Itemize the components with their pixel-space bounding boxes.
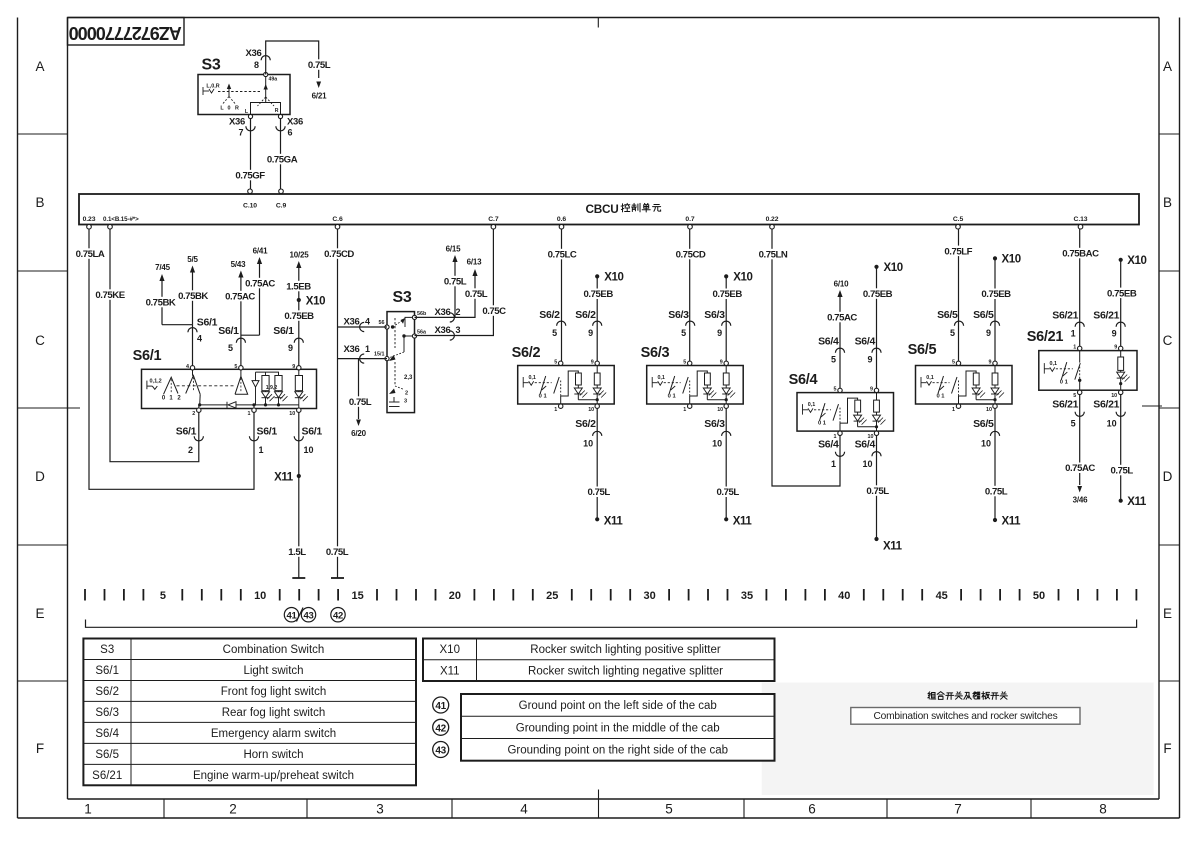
svg-text:S6/5: S6/5 <box>937 309 958 321</box>
svg-text:10: 10 <box>717 407 723 413</box>
CBCU chinese label 控制单元 <box>621 203 630 211</box>
S6/1 pin 5 <box>239 366 243 370</box>
S3 column pin 56b <box>412 315 416 319</box>
svg-text:4: 4 <box>365 317 370 327</box>
wire label 0.75L 6/15 <box>440 276 470 286</box>
wire label 0.75BK right <box>175 290 211 300</box>
ground symbol right <box>331 577 344 579</box>
svg-text:S6/4: S6/4 <box>818 336 839 348</box>
svg-text:5: 5 <box>228 343 233 353</box>
S6/4 pin 9 <box>874 388 878 392</box>
S6/4 pin 10 <box>874 431 878 435</box>
svg-text:4: 4 <box>197 334 202 344</box>
svg-text:0.75AC: 0.75AC <box>1065 463 1095 474</box>
S3 pin R <box>278 114 282 118</box>
wire S6/2 pin9 to X10 <box>596 276 598 361</box>
svg-text:7/45: 7/45 <box>155 263 171 272</box>
border frame inner drawing area <box>68 17 1160 19</box>
S6/1 pin 4 <box>190 366 194 370</box>
S6/1 contact triangle pin5 <box>240 369 242 376</box>
svg-text:42: 42 <box>435 723 446 734</box>
wire S6/2 pin10 to X11 <box>596 408 598 519</box>
svg-text:S6/4: S6/4 <box>855 439 876 451</box>
svg-text:0.75CD: 0.75CD <box>676 250 706 261</box>
svg-text:AZ9727770000: AZ9727770000 <box>69 23 182 43</box>
svg-text:L,0,R: L,0,R <box>206 84 219 90</box>
svg-text:20: 20 <box>449 590 461 602</box>
svg-text:S6/2: S6/2 <box>95 686 119 698</box>
S6/2 pin 5 <box>559 361 563 365</box>
svg-text:0.75EB: 0.75EB <box>1107 288 1137 299</box>
legend circled 42 <box>433 719 449 735</box>
wire S6/3 pin9 to X10 <box>725 276 727 361</box>
S3 interior turn signal symbol <box>203 87 262 95</box>
S6/2 pin 9 <box>595 361 599 365</box>
svg-text:C.6: C.6 <box>332 216 343 223</box>
CBCU control unit box <box>79 194 1139 225</box>
svg-text:0.75LN: 0.75LN <box>759 250 788 261</box>
svg-text:41: 41 <box>287 611 298 622</box>
svg-text:S3: S3 <box>202 57 221 74</box>
svg-text:S3: S3 <box>393 289 412 306</box>
svg-text:S6/3: S6/3 <box>95 707 119 719</box>
svg-text:Horn switch: Horn switch <box>243 749 303 761</box>
svg-text:9: 9 <box>1112 329 1117 339</box>
svg-text:1: 1 <box>683 407 686 413</box>
wire S6/4 pin9 to X10 <box>876 267 878 388</box>
svg-text:1.5L: 1.5L <box>288 547 306 558</box>
S3 pin 49a <box>264 72 268 76</box>
measure ruler numbers <box>160 590 1045 602</box>
legend table ground points <box>461 694 775 761</box>
svg-text:9: 9 <box>986 328 991 338</box>
svg-text:0.75EB: 0.75EB <box>981 289 1011 300</box>
S6/3 pin 5 <box>688 361 692 365</box>
svg-text:S6/3: S6/3 <box>641 345 670 361</box>
svg-text:Rocker switch lighting positiv: Rocker switch lighting positive splitter <box>530 644 721 656</box>
svg-text:0.75CD: 0.75CD <box>324 249 354 260</box>
S6/21 pin 9 <box>1119 346 1123 350</box>
svg-text:6/13: 6/13 <box>467 258 483 267</box>
S6/2 pin 1 <box>559 404 563 408</box>
svg-text:A: A <box>35 59 44 74</box>
svg-text:5: 5 <box>834 387 837 393</box>
S3 pin L <box>248 114 252 118</box>
svg-text:5: 5 <box>681 328 686 338</box>
S6/1 pin 1 <box>252 408 256 412</box>
S6/1 pin 2 <box>197 408 201 412</box>
wire label 0.75EB S6/3 <box>709 289 745 299</box>
S3 internal bracket to pins L and R <box>251 103 281 117</box>
wire S6/21 pin5 to 3/46 <box>1079 395 1081 485</box>
row divider lines right strip <box>1159 133 1180 135</box>
svg-text:56: 56 <box>379 320 385 326</box>
svg-text:0.75L: 0.75L <box>465 289 488 300</box>
svg-text:X36: X36 <box>434 307 450 318</box>
wire S6/3 pin10 to X11 <box>725 408 727 519</box>
bottom center mark at column 4-5 divider <box>598 790 600 819</box>
svg-text:Combination Switch: Combination Switch <box>223 644 325 656</box>
wire label 1.5L <box>286 546 308 556</box>
wire 0.75C from CBCU C.7 to X36-3 <box>415 229 494 336</box>
svg-text:7: 7 <box>238 128 243 138</box>
svg-text:0.75EB: 0.75EB <box>284 311 314 322</box>
svg-text:9: 9 <box>720 360 723 366</box>
svg-text:1: 1 <box>831 459 836 469</box>
svg-text:X11: X11 <box>274 472 294 484</box>
component S6/4 box <box>797 393 894 432</box>
svg-text:3: 3 <box>456 325 461 335</box>
svg-text:0,1: 0,1 <box>1050 361 1058 367</box>
svg-text:5: 5 <box>831 355 836 365</box>
svg-text:C.10: C.10 <box>243 203 257 210</box>
wire 0.75CD CBCU 0.7 to S6/3 pin5 <box>689 229 691 361</box>
svg-text:X36: X36 <box>229 117 245 128</box>
svg-text:2: 2 <box>405 391 408 397</box>
wire branch 6/41 <box>241 334 260 336</box>
S6/2 interior <box>523 377 552 388</box>
svg-text:S6/1: S6/1 <box>302 426 323 438</box>
S6/5 interior <box>921 377 950 388</box>
svg-text:S6/1: S6/1 <box>176 426 197 438</box>
svg-text:S6/1: S6/1 <box>95 665 119 677</box>
row divider lines left strip <box>18 133 68 135</box>
svg-text:10: 10 <box>583 439 593 449</box>
svg-text:Rocker switch lighting negativ: Rocker switch lighting negative splitter <box>528 665 723 677</box>
svg-text:5/5: 5/5 <box>187 255 198 264</box>
wire 0.75L drop to 6/20 <box>358 359 360 419</box>
S3 column pin 15/1 <box>385 357 389 361</box>
svg-text:X11: X11 <box>883 541 903 553</box>
svg-text:0.75L: 0.75L <box>588 487 611 498</box>
svg-text:0.75L: 0.75L <box>308 60 331 71</box>
left center fold mark <box>62 407 80 409</box>
wire 0.75LC CBCU 0.6 to S6/2 pin5 <box>561 229 563 361</box>
svg-text:50: 50 <box>1033 590 1045 602</box>
svg-text:0 1: 0 1 <box>818 421 827 427</box>
svg-text:9: 9 <box>292 364 295 370</box>
svg-text:5: 5 <box>1071 419 1076 429</box>
svg-text:0.75AC: 0.75AC <box>245 279 275 290</box>
slash between 41 and 43 <box>297 608 304 622</box>
svg-text:6: 6 <box>288 128 293 138</box>
wire 0.75LA CBCU D.23 to S6/1 pin1 <box>89 229 254 489</box>
svg-text:E: E <box>35 606 44 621</box>
svg-text:10/25: 10/25 <box>289 251 309 260</box>
svg-text:15/1: 15/1 <box>374 352 385 358</box>
S6/4 pin 5 <box>838 388 842 392</box>
svg-text:0,1: 0,1 <box>528 375 536 381</box>
svg-text:X36: X36 <box>245 48 261 59</box>
node X10 S6/5 <box>993 256 997 260</box>
svg-text:Emergency alarm switch: Emergency alarm switch <box>211 728 336 740</box>
svg-text:10: 10 <box>588 407 594 413</box>
node X10 S6/4 <box>874 265 878 269</box>
svg-text:0.75GF: 0.75GF <box>235 171 265 182</box>
svg-text:0,1: 0,1 <box>657 375 665 381</box>
node X11 S6/21 <box>1119 499 1123 503</box>
svg-text:S6/2: S6/2 <box>575 309 596 321</box>
svg-text:10: 10 <box>986 407 992 413</box>
S6/2 pin 10 <box>595 404 599 408</box>
svg-text:2: 2 <box>188 445 193 455</box>
node X10 S6/3 <box>724 274 728 278</box>
svg-text:5/43: 5/43 <box>231 260 247 269</box>
svg-text:0.7: 0.7 <box>685 216 694 223</box>
svg-text:10: 10 <box>1107 419 1117 429</box>
svg-text:0.75AC: 0.75AC <box>827 313 857 324</box>
svg-text:10: 10 <box>254 590 266 602</box>
svg-text:X11: X11 <box>440 665 460 677</box>
svg-text:0.75L: 0.75L <box>444 277 467 288</box>
ground mark 42 circled <box>331 608 345 622</box>
wire X36-8 to 0.75L branch <box>266 41 319 78</box>
svg-text:0.23: 0.23 <box>83 216 96 223</box>
svg-text:9: 9 <box>591 360 594 366</box>
svg-text:B: B <box>35 195 44 210</box>
svg-text:0.1<B.15-#*>: 0.1<B.15-#*> <box>103 216 139 223</box>
svg-text:R: R <box>235 106 239 112</box>
wire 0.75KE CBCU D.1 to S6/1 pin2 <box>110 229 199 462</box>
S6/21 interior <box>1044 363 1073 374</box>
svg-text:S6/4: S6/4 <box>95 728 119 740</box>
S6/5 pin 1 <box>956 404 960 408</box>
svg-text:45: 45 <box>936 590 948 602</box>
svg-text:Grounding point on the right s: Grounding point on the right side of the… <box>507 745 728 757</box>
svg-text:0 1: 0 1 <box>668 394 677 400</box>
S6/1 resistors <box>262 376 269 391</box>
svg-text:S6/21: S6/21 <box>1052 399 1078 411</box>
svg-text:0.75L: 0.75L <box>866 486 889 497</box>
svg-text:0.75AC: 0.75AC <box>225 292 255 303</box>
svg-text:5: 5 <box>950 328 955 338</box>
svg-text:X36: X36 <box>343 344 359 355</box>
svg-text:8: 8 <box>1099 802 1107 817</box>
wire 0.75BAC CBCU C.13 to S6/21 pin1 <box>1079 229 1081 346</box>
S6/1 diode triangle small <box>252 381 259 388</box>
wire 0.75LN CBCU 0.22 to S6/4 pin1 <box>772 229 840 486</box>
connector X36 pin 4 wire <box>338 326 388 328</box>
S6/3 pin 10 <box>724 404 728 408</box>
svg-text:56b: 56b <box>417 311 427 317</box>
svg-text:1: 1 <box>554 407 557 413</box>
svg-text:C: C <box>35 333 45 348</box>
svg-text:S6/5: S6/5 <box>908 342 937 358</box>
svg-text:C: C <box>1163 333 1173 348</box>
svg-text:S6/21: S6/21 <box>92 770 122 782</box>
wire S6/4 pin5 to 6/10 <box>839 297 841 388</box>
S6/21 pin 5 <box>1078 390 1082 394</box>
reference arrow 6/21 <box>316 82 321 89</box>
svg-text:X10: X10 <box>604 272 623 284</box>
legend circled 41 <box>433 697 449 713</box>
svg-text:Light switch: Light switch <box>243 665 303 677</box>
svg-text:0,1: 0,1 <box>808 402 816 408</box>
svg-text:43: 43 <box>304 611 314 622</box>
S6/21 pin 10 <box>1119 390 1123 394</box>
svg-text:10: 10 <box>289 411 295 417</box>
svg-text:X10: X10 <box>1002 253 1021 265</box>
svg-text:S6/3: S6/3 <box>704 309 725 321</box>
light gray background block <box>762 683 1154 796</box>
svg-text:43: 43 <box>435 746 446 757</box>
legend table switches <box>83 639 416 786</box>
svg-text:S6/4: S6/4 <box>789 372 818 388</box>
svg-text:S6/3: S6/3 <box>704 418 725 430</box>
S6/21 pin 1 <box>1078 346 1082 350</box>
S6/1 bus line <box>200 404 227 406</box>
node X10 S6/2 <box>595 274 599 278</box>
S3 column pin 56 <box>385 325 389 329</box>
legend circled 43 <box>433 742 449 758</box>
node X11 S6/3 <box>724 517 728 521</box>
ground mark 43 circled <box>301 608 315 622</box>
svg-text:S6/5: S6/5 <box>95 749 119 761</box>
svg-text:15: 15 <box>351 590 363 602</box>
node X10 for S6/1 <box>297 298 301 302</box>
svg-text:0.75L: 0.75L <box>985 487 1008 498</box>
wire label 0.75EB S6/4 <box>860 288 896 298</box>
svg-text:Front fog light switch: Front fog light switch <box>221 686 326 698</box>
svg-text:0.75L: 0.75L <box>1111 466 1134 477</box>
component S3 combination switch top box <box>198 75 290 115</box>
svg-text:6/21: 6/21 <box>312 92 328 101</box>
svg-text:4: 4 <box>186 364 189 370</box>
svg-text:2: 2 <box>192 411 195 417</box>
svg-text:S6/1: S6/1 <box>218 325 239 337</box>
svg-text:X36: X36 <box>287 117 303 128</box>
svg-text:S6/21: S6/21 <box>1093 399 1119 411</box>
svg-text:Rear fog light switch: Rear fog light switch <box>222 707 326 719</box>
svg-text:1.5EB: 1.5EB <box>286 282 311 293</box>
svg-text:S6/2: S6/2 <box>512 345 541 361</box>
wire label 0.75EB S6/5 <box>978 289 1014 299</box>
svg-text:0 1: 0 1 <box>936 394 945 400</box>
svg-text:F: F <box>1163 741 1171 756</box>
svg-text:X11: X11 <box>1127 496 1147 508</box>
svg-text:5: 5 <box>552 328 557 338</box>
svg-text:X10: X10 <box>306 296 325 308</box>
S6/1 pin 10 <box>297 408 301 412</box>
svg-text:0.75KE: 0.75KE <box>95 290 125 301</box>
node X11 S6/4 <box>874 537 878 541</box>
wire label 0.75BK left <box>143 297 179 307</box>
S6/1 interior symbols <box>146 381 148 390</box>
svg-text:9: 9 <box>870 387 873 393</box>
svg-text:5: 5 <box>554 360 557 366</box>
wire 0.75GF S3 pin L to CBCU C.10 <box>250 119 252 190</box>
svg-text:0.75LF: 0.75LF <box>944 246 972 257</box>
S6/3 pin 1 <box>688 404 692 408</box>
S6/5 pin 9 <box>993 361 997 365</box>
svg-text:49a: 49a <box>269 77 278 83</box>
svg-text:X11: X11 <box>1002 516 1022 528</box>
svg-text:1: 1 <box>84 802 92 817</box>
sheet title english box <box>851 708 1080 725</box>
node X11 S6/2 <box>595 517 599 521</box>
svg-text:E: E <box>1163 606 1172 621</box>
svg-text:0.75BAC: 0.75BAC <box>1062 249 1099 260</box>
wire label 0.75L top <box>304 59 334 69</box>
svg-text:5: 5 <box>160 590 166 602</box>
svg-text:0.75LA: 0.75LA <box>76 249 105 260</box>
ground symbol left <box>292 577 305 579</box>
svg-text:C.7: C.7 <box>488 216 499 223</box>
wire S6/1 pin10 to X11 and ground 1.5L <box>298 412 300 578</box>
svg-text:9: 9 <box>1114 345 1117 351</box>
svg-text:X11: X11 <box>604 515 624 527</box>
svg-text:F: F <box>36 741 44 756</box>
svg-text:S6/21: S6/21 <box>1093 310 1119 322</box>
svg-text:42: 42 <box>333 611 343 622</box>
svg-text:0.6: 0.6 <box>557 216 566 223</box>
wire label 0.75AC <box>222 291 258 301</box>
svg-text:6/10: 6/10 <box>834 280 850 289</box>
svg-text:0.75L: 0.75L <box>717 487 740 498</box>
connector X36 pin 1 wire <box>338 358 388 360</box>
svg-text:S6/21: S6/21 <box>1027 329 1064 345</box>
title block box <box>68 18 185 46</box>
svg-text:S6/1: S6/1 <box>273 325 294 337</box>
S3 column interior <box>394 318 396 348</box>
svg-text:B: B <box>1163 195 1172 210</box>
wire S6/21 pin10 to X11 <box>1120 395 1122 501</box>
svg-text:Combination switches and rocke: Combination switches and rocker switches <box>874 711 1058 722</box>
svg-text:S6/5: S6/5 <box>973 309 994 321</box>
svg-text:30: 30 <box>643 590 655 602</box>
svg-text:S6/21: S6/21 <box>1052 310 1078 322</box>
svg-text:1: 1 <box>1071 329 1076 339</box>
svg-text:40: 40 <box>838 590 850 602</box>
node X11 for S6/1 <box>297 474 301 478</box>
svg-text:X10: X10 <box>733 272 752 284</box>
svg-text:1: 1 <box>248 411 251 417</box>
svg-text:56a: 56a <box>417 330 427 336</box>
svg-text:S6/3: S6/3 <box>668 309 689 321</box>
S6/1 contact lambda 2 pin4 <box>186 376 201 395</box>
wire S6/21 pin9 to X10 <box>1120 260 1122 346</box>
svg-text:0.75EB: 0.75EB <box>713 289 743 300</box>
wire S6/5 pin9 to X10 <box>994 258 996 361</box>
svg-text:0.75L: 0.75L <box>326 547 349 558</box>
wire S6/1 pin4 up with branch <box>192 325 194 366</box>
svg-text:5: 5 <box>665 802 673 817</box>
svg-text:C.9: C.9 <box>276 203 287 210</box>
svg-text:D: D <box>1163 469 1173 484</box>
svg-text:9: 9 <box>588 328 593 338</box>
svg-text:10: 10 <box>712 439 722 449</box>
S6/4 pin 1 <box>838 431 842 435</box>
svg-text:Engine warm-up/preheat switch: Engine warm-up/preheat switch <box>193 770 354 782</box>
svg-text:Grounding point in the middle: Grounding point in the middle of the cab <box>516 722 720 734</box>
svg-text:S6/4: S6/4 <box>855 336 876 348</box>
svg-text:0.75BK: 0.75BK <box>146 298 176 309</box>
svg-text:S3: S3 <box>100 644 114 656</box>
node X11 S6/5 <box>993 518 997 522</box>
wire label 0.75EB S6/21 <box>1104 288 1140 298</box>
svg-text:1: 1 <box>258 445 263 455</box>
wire X36-2 to 6/15 and 6/13 <box>415 276 476 317</box>
bottom column strip <box>163 799 165 818</box>
svg-text:4: 4 <box>520 802 528 817</box>
svg-text:0: 0 <box>228 106 231 112</box>
legend table X10 X11 <box>423 639 775 682</box>
svg-text:X36: X36 <box>343 317 359 328</box>
svg-text:S6/5: S6/5 <box>973 418 994 430</box>
S6/3 interior <box>652 377 681 388</box>
wire 1.5EB above X10 <box>298 268 300 300</box>
component S3 column box <box>387 312 415 413</box>
